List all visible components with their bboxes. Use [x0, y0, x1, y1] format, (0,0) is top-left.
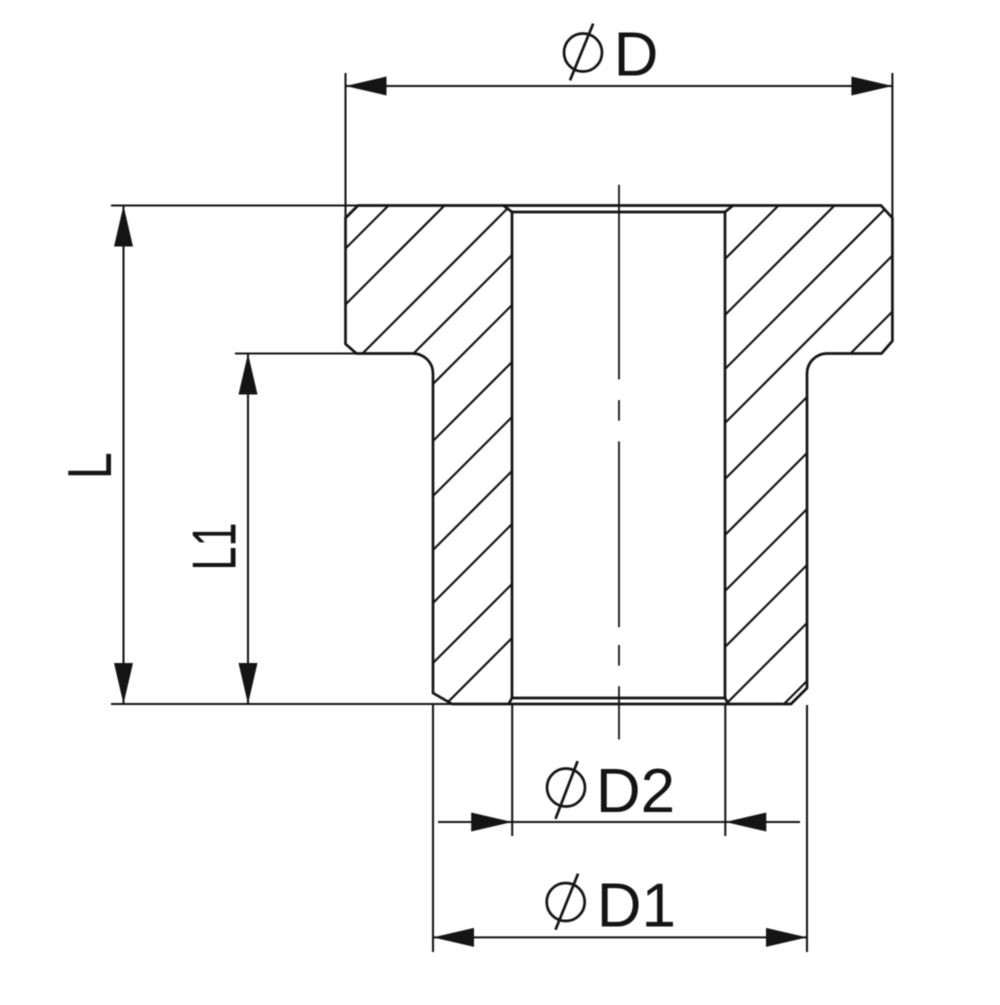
arrow L1 top — [239, 354, 258, 395]
svg-text:L: L — [56, 452, 125, 479]
centerline — [618, 185, 620, 740]
dimension D: extension lines — [346, 73, 893, 219]
svg-text:L1: L1 — [180, 523, 249, 571]
arrow D1 right — [766, 928, 807, 947]
arrow L top — [114, 206, 133, 247]
hatching right section — [226, 178, 1000, 758]
dimension D1: dimension line — [433, 936, 807, 938]
arrow D2 left (outside, pointing right) — [471, 813, 512, 832]
bore entry chamfer top — [504, 206, 734, 213]
arrow D2 right (outside, pointing left) — [725, 813, 766, 832]
dimension D: dimension line — [346, 85, 893, 87]
dimension D2: extension lines — [438, 705, 800, 836]
dimension L: dimension line — [122, 206, 124, 705]
dimension D2: dimension line — [438, 821, 800, 823]
arrow D right — [851, 77, 892, 96]
dimension L: extension lines — [111, 206, 452, 705]
svg-text:D1: D1 — [597, 871, 676, 940]
label diameter-symbol D2 — [547, 761, 585, 819]
arrow L bottom — [114, 663, 133, 704]
outer profile — [346, 206, 893, 705]
dimension D1: extension lines — [433, 705, 807, 952]
svg-text:D: D — [614, 21, 659, 90]
svg-text:D2: D2 — [596, 757, 675, 826]
part outline: flanged bushing cross-section — [346, 206, 893, 705]
arrow L1 bottom — [239, 663, 258, 704]
bore left wall — [511, 212, 514, 698]
label diameter-symbol D — [564, 24, 602, 81]
label diameter-symbol D1 — [547, 874, 585, 930]
dimension L1: extension line — [235, 354, 357, 705]
bore right wall — [724, 212, 727, 698]
arrow D1 left — [433, 928, 474, 947]
dimension L1: dimension line — [247, 354, 249, 705]
bore exit chamfer bottom — [509, 698, 729, 704]
arrow D left — [346, 77, 387, 96]
hatching left section — [0, 178, 972, 758]
